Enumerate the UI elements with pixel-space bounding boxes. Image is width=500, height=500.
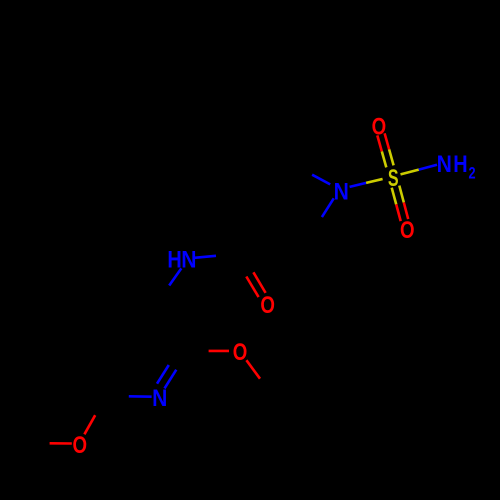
svg-text:O: O bbox=[260, 292, 275, 319]
bond HN-C(=O) amide stub bbox=[194, 256, 216, 258]
bond S-NH2 (sulfonamide) bbox=[401, 165, 438, 175]
bond N1-C6 (pyridine ring) stub bbox=[129, 395, 152, 398]
svg-text:O: O bbox=[233, 339, 248, 366]
bond N(azetidine)-C2 ring stub bbox=[312, 175, 330, 185]
bond S=O (lower sulfonyl oxygen), double bbox=[392, 186, 409, 222]
svg-text:N: N bbox=[152, 385, 167, 412]
svg-text:H: H bbox=[167, 246, 181, 273]
svg-text:N: N bbox=[334, 178, 349, 205]
svg-text:S: S bbox=[388, 166, 399, 192]
svg-text:N: N bbox=[181, 246, 196, 273]
bond O-CH3 (6-methoxy methyl) bbox=[50, 442, 72, 445]
svg-text:2: 2 bbox=[468, 164, 475, 183]
bond N1=C2 (pyridine ring double), main line bbox=[165, 370, 177, 389]
bond N(azetidine)-C4 ring stub bbox=[322, 198, 334, 217]
bond O-CH3 (2-methoxy methyl) bbox=[246, 360, 260, 379]
bond C=O (amide carbonyl), double bbox=[246, 272, 265, 297]
svg-text:O: O bbox=[400, 217, 415, 244]
svg-text:O: O bbox=[372, 113, 387, 140]
bond C2(pyridine)-O (methoxy ether) bbox=[209, 350, 229, 353]
bond N(azetidine)-S bbox=[350, 179, 383, 187]
bond HN-C3(pyridine) stub bbox=[169, 268, 181, 285]
svg-text:O: O bbox=[73, 432, 88, 459]
bond S=O (upper sulfonyl oxygen), double bbox=[377, 133, 393, 167]
bond N1=C2 (pyridine ring double), inner line bbox=[157, 365, 169, 384]
svg-text:H: H bbox=[453, 150, 467, 177]
svg-text:N: N bbox=[437, 151, 452, 178]
bond C6(pyridine)-O (methoxy ether) bbox=[84, 415, 95, 434]
